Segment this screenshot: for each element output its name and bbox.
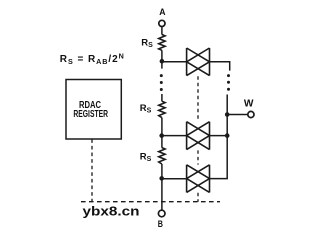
wire node3 to terminal B (161, 179, 163, 211)
wire node2 to switch SW2 (162, 135, 187, 137)
wire A to R1 (161, 27, 163, 35)
switch SW2 (transmission gate) (187, 122, 210, 150)
dashed line RDAC box down (91, 139, 93, 201)
node W junction (225, 112, 230, 117)
wire to terminal W (227, 114, 248, 116)
wire stub below node1 (161, 62, 163, 69)
node SW2 bus junction (225, 133, 230, 138)
wire SW1 to right stub (210, 62, 230, 71)
wire right bus (210, 95, 228, 179)
switch SW1 (transmission gate) (187, 48, 210, 76)
ellipsis dots left rail (160, 74, 163, 91)
terminal B (158, 210, 165, 217)
svg-text:W: W (244, 98, 254, 109)
wire R1 to node1 (161, 50, 163, 61)
wire to R2 (161, 94, 163, 101)
node junction 1 (160, 59, 165, 64)
resistor RS (bottom) (159, 148, 165, 164)
wire node3 to switch SW3 (162, 178, 187, 180)
ellipsis dots right rail (227, 74, 230, 91)
dashed control bus horizontal (81, 201, 220, 203)
node junction 3 (159, 176, 164, 181)
RDAC register box (66, 80, 121, 140)
wire SW2 to right bus (210, 135, 228, 137)
node junction 2 (159, 133, 164, 138)
svg-text:REGISTER: REGISTER (73, 109, 108, 120)
svg-text:A: A (159, 7, 165, 18)
wire R2 to node2 (161, 118, 163, 136)
terminal W (248, 111, 254, 117)
terminal A (159, 20, 165, 26)
svg-text:ybx8.cn: ybx8.cn (83, 203, 140, 218)
wire node2 to R3 (161, 136, 163, 148)
control dashed line SW1-SW2 (197, 76, 199, 121)
wire node1 to switch SW1 (162, 61, 187, 63)
resistor RS (top) (159, 35, 165, 51)
resistor RS (middle) (159, 101, 165, 117)
svg-text:B: B (158, 219, 163, 230)
control dashed line SW3 to bus (197, 193, 199, 202)
wire R3 to node3 (161, 164, 163, 179)
switch SW3 (transmission gate) (187, 165, 210, 193)
control dashed line SW2-SW3 (197, 150, 199, 164)
